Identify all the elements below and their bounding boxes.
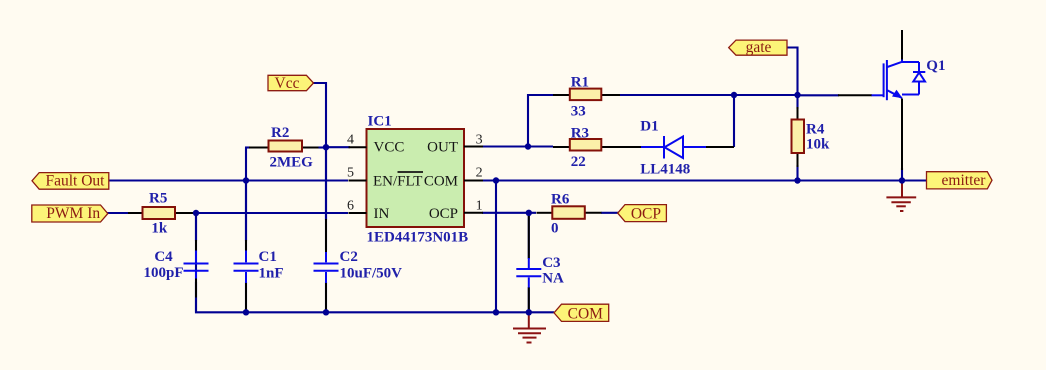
wire D1 anode vertical xyxy=(733,95,735,147)
wire gate row from R1 branch xyxy=(528,95,553,146)
wire Q1 emitter to rail xyxy=(901,168,903,181)
wire C3 branch xyxy=(528,213,530,259)
wire Fault Out row xyxy=(108,179,348,181)
wire gate vertical to R4 xyxy=(796,95,798,109)
capacitor C2 xyxy=(314,148,403,312)
capacitor C1 xyxy=(234,182,284,312)
pin 3 xyxy=(464,146,483,148)
wire R6 to OCP flag xyxy=(601,212,618,214)
svg-text:OCP: OCP xyxy=(429,206,458,222)
svg-text:2: 2 xyxy=(476,166,483,181)
svg-text:R4: R4 xyxy=(806,122,825,138)
svg-text:VCC: VCC xyxy=(374,140,405,156)
svg-text:4: 4 xyxy=(347,133,354,148)
port gate xyxy=(729,39,787,56)
port Fault Out xyxy=(32,173,109,190)
svg-text:COM: COM xyxy=(424,174,458,190)
node junction Q1 emitter xyxy=(899,177,905,183)
resistor R3 xyxy=(553,126,642,171)
wire COM vertical xyxy=(495,181,497,313)
node junction rail C2 xyxy=(323,309,329,315)
node junction gate/R4 xyxy=(794,92,800,98)
wire Vcc/C2 vertical xyxy=(325,146,327,250)
svg-text:C1: C1 xyxy=(259,249,277,265)
svg-text:C2: C2 xyxy=(340,249,358,265)
svg-text:Vcc: Vcc xyxy=(275,75,300,92)
ground at emitter xyxy=(886,181,916,211)
wire pin1 to R6 xyxy=(482,212,536,214)
svg-text:5: 5 xyxy=(347,166,354,181)
svg-text:OCP: OCP xyxy=(631,206,661,223)
svg-text:COM: COM xyxy=(568,305,604,322)
svg-text:2MEG: 2MEG xyxy=(270,155,314,171)
svg-text:1ED44173N01B: 1ED44173N01B xyxy=(367,230,469,246)
svg-text:C4: C4 xyxy=(154,249,173,265)
node junction pin1/R6/C3 xyxy=(526,210,532,216)
wire R1 right to junction xyxy=(619,94,734,96)
node junction R5/PWM xyxy=(193,210,199,216)
node junction R1/D1 xyxy=(731,92,737,98)
pin 6 xyxy=(349,212,367,214)
capacitor C3 xyxy=(516,214,564,312)
resistor R5 xyxy=(128,190,193,236)
node junction R4/emitter row xyxy=(794,177,800,183)
svg-text:R1: R1 xyxy=(571,74,589,90)
svg-text:100pF: 100pF xyxy=(143,265,183,281)
resistor R2 xyxy=(245,125,326,171)
op-amp IC1 body xyxy=(367,114,469,246)
pin 2 xyxy=(464,180,483,182)
wire C4 bottom xyxy=(195,282,197,312)
svg-text:1: 1 xyxy=(476,199,483,214)
svg-text:R2: R2 xyxy=(271,125,289,141)
svg-text:Fault Out: Fault Out xyxy=(46,173,106,190)
node junction pin3/R1 branch xyxy=(525,143,531,149)
resistor R4 xyxy=(792,107,831,167)
pin 4 xyxy=(349,146,367,148)
svg-text:NA: NA xyxy=(542,271,564,287)
svg-text:Q1: Q1 xyxy=(926,58,945,74)
wire C1 bottom xyxy=(245,282,247,312)
wire Vcc horizontal xyxy=(313,83,326,146)
wire C3 bottom xyxy=(528,287,530,312)
capacitor C4 xyxy=(143,214,208,298)
node junction pin2/COM vertical xyxy=(493,177,499,183)
svg-text:22: 22 xyxy=(571,154,586,170)
ground at C3/COM xyxy=(513,313,546,343)
svg-text:gate: gate xyxy=(746,39,772,56)
pin 5 xyxy=(349,180,367,182)
resistor R1 xyxy=(553,74,620,119)
svg-text:10k: 10k xyxy=(806,137,830,153)
svg-text:3: 3 xyxy=(476,133,483,148)
svg-text:D1: D1 xyxy=(640,119,658,135)
wire gate flag drop xyxy=(787,48,798,96)
wire PWM row xyxy=(107,212,128,214)
svg-text:IC1: IC1 xyxy=(368,114,392,130)
resistor R6 xyxy=(537,191,602,236)
wire R4 bottom to emitter row xyxy=(796,165,798,181)
wire bottom COM rail xyxy=(196,213,554,312)
svg-text:IN: IN xyxy=(374,206,390,222)
svg-text:R6: R6 xyxy=(551,191,570,207)
svg-text:R3: R3 xyxy=(571,126,589,142)
svg-text:0: 0 xyxy=(551,221,559,237)
port emitter xyxy=(927,172,993,189)
svg-text:LL4148: LL4148 xyxy=(640,162,690,178)
wire pin3 to R3 xyxy=(482,145,553,147)
port OCP xyxy=(618,205,667,223)
wire junction to gate vertical xyxy=(734,94,798,96)
node junction rail C1 xyxy=(243,309,249,315)
svg-text:C3: C3 xyxy=(542,255,560,271)
svg-text:6: 6 xyxy=(347,199,354,214)
wire C2 bottom xyxy=(325,282,327,312)
svg-text:R5: R5 xyxy=(149,190,167,206)
svg-text:1k: 1k xyxy=(151,220,168,236)
port PWM In xyxy=(32,205,108,222)
svg-text:1nF: 1nF xyxy=(259,266,284,282)
wire R2 left drop / C1 branch xyxy=(245,148,247,251)
svg-text:EN/FLT: EN/FLT xyxy=(373,174,422,190)
node junction FaultOut/C1 xyxy=(243,177,249,183)
node junction Vcc/R2/pin4 xyxy=(323,144,329,150)
transistor Q1 IGBT xyxy=(798,30,946,170)
svg-text:10uF/50V: 10uF/50V xyxy=(340,266,403,282)
wire pin2 emitter row xyxy=(482,179,926,181)
node junction rail C3/ground xyxy=(526,309,532,315)
svg-text:emitter: emitter xyxy=(942,172,987,189)
svg-text:33: 33 xyxy=(571,104,586,120)
svg-text:PWM In: PWM In xyxy=(46,205,100,222)
wire R5 to pin6 xyxy=(191,212,348,214)
diode D1 LL4148 xyxy=(640,119,734,178)
svg-text:OUT: OUT xyxy=(427,140,458,156)
wire pin4 to junction xyxy=(326,146,350,148)
port Vcc xyxy=(268,75,314,92)
port COM xyxy=(554,304,609,322)
node junction rail COM vertical xyxy=(493,309,499,315)
pin 1 xyxy=(464,212,483,214)
